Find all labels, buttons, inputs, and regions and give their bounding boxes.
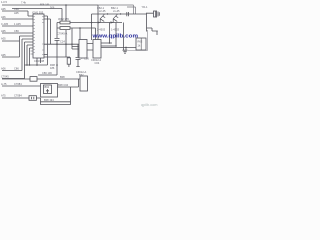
svg-text:3062 385: 3062 385 bbox=[58, 17, 69, 21]
wire left stub pin1 bbox=[2, 11, 33, 16]
svg-text:B62: B62 bbox=[79, 73, 84, 77]
svg-text:1-4503: 1-4503 bbox=[111, 27, 120, 31]
svg-text:A-75: A-75 bbox=[1, 82, 7, 86]
resistor R-vert lead bbox=[68, 64, 70, 67]
wire top bus 2 bbox=[12, 9, 62, 23]
svg-text:A05: A05 bbox=[1, 7, 6, 11]
wire mid bus y75 bbox=[38, 74, 57, 76]
svg-text:C86: C86 bbox=[14, 7, 19, 11]
svg-text:C86: C86 bbox=[84, 57, 89, 61]
wire top right bus y14 bbox=[92, 13, 147, 15]
svg-text:A05: A05 bbox=[14, 11, 19, 15]
transistor Q1 symbol bbox=[100, 14, 105, 22]
IC U1 right pin a bbox=[44, 16, 48, 65]
svg-text:qpilb.com: qpilb.com bbox=[141, 103, 158, 107]
IC U1 bottom pins bbox=[37, 58, 41, 65]
svg-text:www.qpilb.com: www.qpilb.com bbox=[91, 33, 138, 39]
capacitor C-center plates bbox=[55, 39, 60, 41]
wire q-vert x95.5 bbox=[91, 14, 93, 40]
wire left stub pin4 bbox=[2, 32, 33, 34]
wire vert x80 into box1 bbox=[79, 28, 81, 40]
wire center vertical x66 bbox=[65, 30, 67, 57]
wire bus y48.5 bbox=[101, 46, 136, 48]
box B5 thin bbox=[136, 38, 146, 50]
capacitor C-right plates bbox=[76, 57, 81, 59]
svg-text:7.4k: 7.4k bbox=[21, 1, 27, 5]
svg-text:A06: A06 bbox=[1, 67, 6, 71]
junction dots bbox=[56, 43, 58, 45]
wire staircase 5 bbox=[30, 48, 34, 65]
wire left stub pin2 bbox=[2, 18, 33, 20]
resistor R-B body bbox=[60, 27, 70, 30]
wire center vertical x57 bbox=[56, 23, 58, 39]
resistor R-A body bbox=[60, 21, 70, 24]
svg-text:ICM1 555: ICM1 555 bbox=[32, 10, 44, 14]
svg-text:C04 B08: C04 B08 bbox=[34, 59, 45, 63]
wire top corner bbox=[65, 5, 67, 21]
IC U1 body bbox=[33, 14, 44, 58]
svg-text:C7084: C7084 bbox=[14, 82, 22, 86]
svg-text:A05: A05 bbox=[1, 37, 6, 41]
wire cap branch bbox=[77, 45, 79, 58]
wire vert x112 bbox=[109, 23, 111, 44]
wire right vert x147.5 bbox=[128, 30, 148, 51]
wire vert x122 bbox=[123, 23, 125, 51]
wire staircase 3 bbox=[2, 42, 33, 79]
box B4 outer bbox=[41, 84, 58, 98]
svg-text:C04: C04 bbox=[95, 61, 100, 65]
diode arrows on y22.5 bbox=[98, 21, 114, 23]
wire right vert x146.5 bbox=[146, 13, 148, 32]
wire staircase 1 bbox=[2, 36, 33, 57]
svg-text:B62: B62 bbox=[45, 85, 50, 89]
box ticks bbox=[32, 97, 34, 99]
svg-text:A05: A05 bbox=[1, 29, 6, 33]
wire nested corner 2 bbox=[127, 7, 136, 14]
svg-text:A05: A05 bbox=[1, 53, 6, 57]
wire mid bus y65 bbox=[25, 64, 48, 66]
wire stubs into box1 bbox=[72, 28, 79, 49]
component box on y98 bbox=[29, 96, 36, 101]
svg-text:C24: C24 bbox=[60, 40, 65, 44]
wire mid bus y79 bbox=[2, 78, 80, 80]
wire top bus 1 bbox=[2, 5, 98, 40]
svg-text:R62: R62 bbox=[138, 40, 143, 44]
wire left stub y41 bbox=[2, 40, 20, 42]
wire center vertical x57 lower bbox=[56, 40, 58, 75]
speaker LS1 bbox=[154, 11, 156, 17]
IC U1 right pin b bbox=[44, 19, 51, 45]
wire staircase 4 bbox=[27, 45, 33, 65]
wire bus y43 bbox=[101, 42, 112, 44]
IC U1 extra left stubs bbox=[31, 51, 34, 54]
wire right of B4 y87 bbox=[58, 79, 79, 87]
svg-text:C7084: C7084 bbox=[14, 93, 22, 97]
svg-text:B08 C04: B08 C04 bbox=[58, 83, 69, 87]
ground G1 bbox=[123, 50, 128, 53]
svg-text:C7045-A: C7045-A bbox=[57, 31, 68, 35]
svg-text:C86: C86 bbox=[14, 29, 19, 33]
wire bottom y104.5 bbox=[41, 104, 71, 106]
wire bottom y100 bbox=[41, 98, 71, 105]
box B3 bbox=[80, 76, 88, 91]
IC U1 inner pin marks bbox=[34, 17, 44, 55]
wire bus y46 bbox=[101, 45, 116, 47]
wire right y28 bbox=[147, 13, 158, 35]
svg-text:x1-45: x1-45 bbox=[113, 9, 120, 13]
resistor R-vert body bbox=[67, 58, 70, 64]
wire mid bus y44.5 bbox=[44, 43, 79, 45]
resistor R-A leads bbox=[57, 22, 122, 24]
box B4 inner element bbox=[46, 89, 49, 93]
box B2 bbox=[93, 40, 101, 59]
capacitor on y14 bus bbox=[127, 12, 129, 16]
wire y86 bbox=[2, 85, 41, 87]
svg-text:C86: C86 bbox=[14, 67, 19, 71]
svg-text:1 A05: 1 A05 bbox=[14, 22, 21, 26]
svg-text:x2-45: x2-45 bbox=[99, 9, 106, 13]
wire cap lower lead bbox=[76, 59, 79, 66]
wire box1-box2 links bbox=[87, 44, 93, 51]
wire staircase 2 bbox=[2, 39, 33, 71]
wire y98 left bbox=[2, 97, 41, 99]
svg-text:B08 194: B08 194 bbox=[44, 98, 54, 102]
resistor R-B leads bbox=[57, 28, 96, 40]
transistor Q2 symbol bbox=[113, 14, 118, 22]
wire vert x125.5 bbox=[125, 47, 127, 50]
svg-text:806-1/8: 806-1/8 bbox=[40, 3, 49, 7]
svg-text:A75: A75 bbox=[1, 93, 6, 97]
svg-text:506: 506 bbox=[50, 6, 55, 10]
box B5 divider bbox=[140, 38, 142, 50]
svg-text:C A05: C A05 bbox=[1, 22, 9, 26]
svg-text:1-0.5: 1-0.5 bbox=[1, 0, 7, 4]
wire vert x116 bbox=[115, 23, 117, 47]
svg-text:YD-1: YD-1 bbox=[142, 5, 148, 9]
svg-text:B08: B08 bbox=[60, 75, 65, 79]
speaker LS1 hatches bbox=[157, 11, 160, 18]
svg-text:A06: A06 bbox=[1, 15, 6, 19]
svg-text:186: 186 bbox=[50, 66, 55, 70]
component box on y79 bbox=[30, 77, 37, 82]
box B4 inner bbox=[44, 85, 52, 94]
svg-text:C86 106: C86 106 bbox=[42, 71, 52, 75]
wire left stub pin3 bbox=[2, 25, 33, 27]
box B1 bbox=[79, 40, 87, 59]
wire top bus 1 extension bbox=[98, 5, 134, 14]
svg-text:2-4503: 2-4503 bbox=[97, 27, 106, 31]
wire mid bus y57 bbox=[44, 56, 70, 58]
wire vert x70.5 bbox=[70, 87, 72, 105]
svg-text:C7045: C7045 bbox=[1, 75, 9, 79]
